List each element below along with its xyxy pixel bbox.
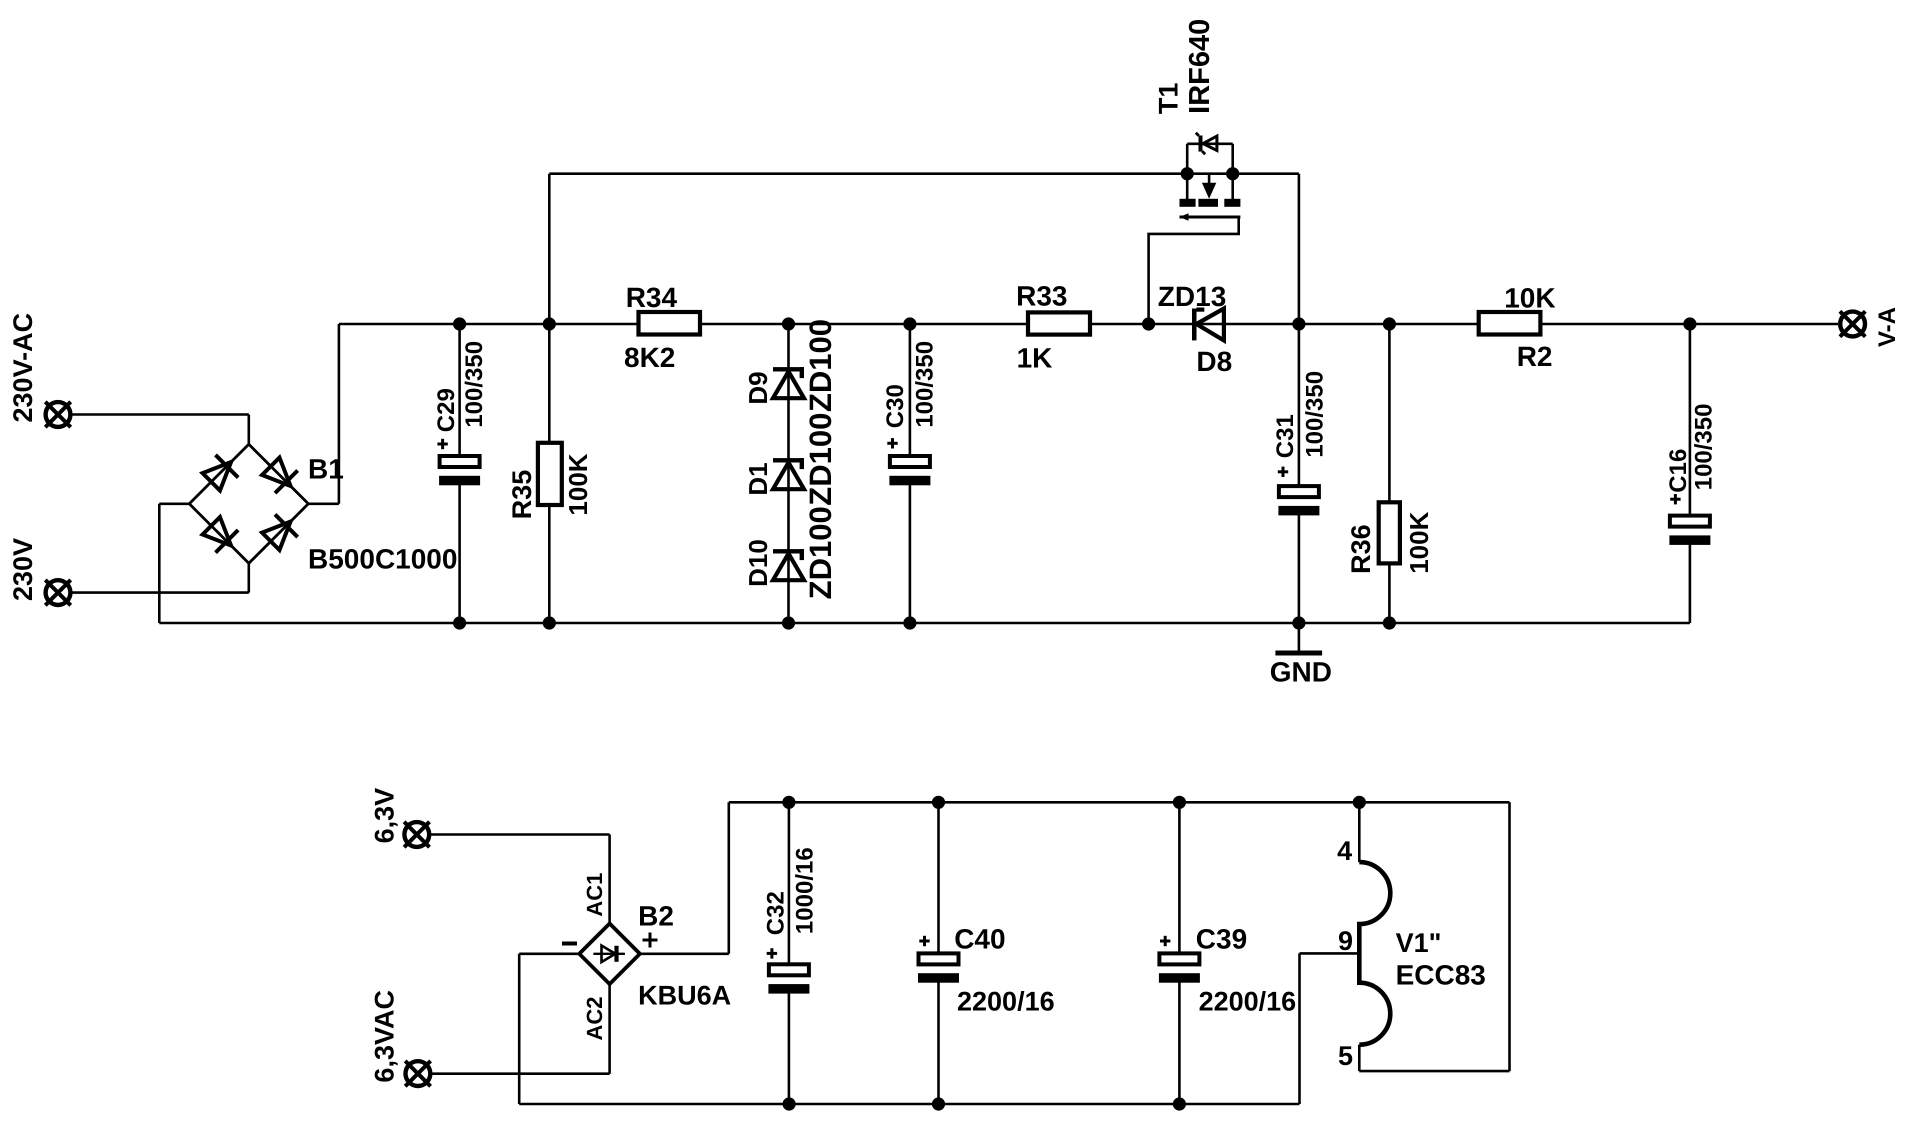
svg-text:B2: B2: [638, 901, 674, 932]
svg-text:T1: T1: [1154, 83, 1184, 115]
svg-text:ECC83: ECC83: [1396, 959, 1486, 990]
svg-text:V1": V1": [1396, 928, 1442, 958]
svg-text:C16: C16: [1665, 449, 1692, 493]
svg-text:ZD100: ZD100: [803, 506, 838, 599]
svg-text:ZD100: ZD100: [803, 319, 838, 412]
svg-text:D9: D9: [743, 371, 773, 404]
svg-text:D1: D1: [743, 462, 773, 495]
svg-text:ZD13: ZD13: [1158, 281, 1226, 312]
svg-text:C32: C32: [763, 891, 790, 935]
svg-text:ZD100: ZD100: [803, 413, 838, 506]
svg-text:D8: D8: [1196, 346, 1232, 377]
svg-text:100/350: 100/350: [1690, 404, 1717, 491]
svg-text:AC2: AC2: [582, 996, 607, 1040]
svg-text:230V-AC: 230V-AC: [8, 313, 38, 423]
svg-text:C29: C29: [433, 388, 460, 432]
svg-text:C40: C40: [954, 924, 1005, 955]
svg-text:2200/16: 2200/16: [1199, 987, 1297, 1017]
svg-text:100/350: 100/350: [912, 341, 939, 428]
svg-text:230V: 230V: [8, 538, 38, 601]
svg-text:R35: R35: [507, 470, 537, 520]
svg-text:AC1: AC1: [582, 873, 607, 917]
svg-text:100K: 100K: [1404, 511, 1434, 573]
svg-text:2200/16: 2200/16: [957, 987, 1055, 1017]
svg-text:10K: 10K: [1504, 283, 1555, 314]
svg-text:C31: C31: [1272, 414, 1299, 458]
svg-text:9: 9: [1338, 926, 1353, 956]
svg-text:R36: R36: [1346, 524, 1376, 574]
svg-text:R33: R33: [1016, 281, 1067, 312]
svg-text:100/350: 100/350: [1301, 371, 1328, 458]
svg-text:R34: R34: [626, 282, 678, 313]
svg-text:1000/16: 1000/16: [791, 847, 818, 934]
svg-text:V-A: V-A: [1874, 307, 1901, 347]
svg-text:B500C1000: B500C1000: [308, 544, 457, 575]
svg-text:6,3V: 6,3V: [370, 788, 400, 844]
svg-text:1K: 1K: [1017, 343, 1053, 374]
svg-text:6,3VAC: 6,3VAC: [370, 990, 400, 1083]
svg-text:KBU6A: KBU6A: [638, 981, 731, 1011]
svg-text:100K: 100K: [563, 453, 593, 515]
svg-text:5: 5: [1338, 1041, 1353, 1071]
svg-text:C39: C39: [1196, 924, 1247, 955]
svg-text:8K2: 8K2: [624, 342, 675, 373]
svg-text:C30: C30: [882, 384, 909, 428]
svg-text:4: 4: [1337, 836, 1352, 866]
svg-text:B1: B1: [308, 453, 344, 484]
svg-text:GND: GND: [1270, 656, 1332, 687]
svg-text:100/350: 100/350: [461, 341, 488, 428]
svg-text:D10: D10: [743, 539, 773, 587]
svg-text:R2: R2: [1517, 341, 1553, 372]
svg-text:IRF640: IRF640: [1184, 19, 1216, 114]
